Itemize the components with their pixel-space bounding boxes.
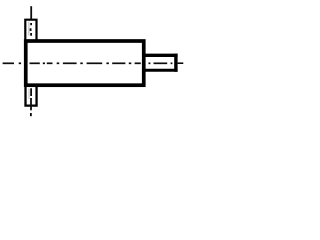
- right journal bottom edge: [144, 69, 178, 72]
- vertical centerline dot 2: [30, 28, 32, 31]
- horizontal centerline dot e: [106, 62, 109, 64]
- horizontal centerline dot h (inside journal): [171, 62, 173, 64]
- pin boss above body outline: [25, 20, 36, 42]
- vertical centerline end dot: [30, 113, 32, 116]
- vertical centerline lower dash 1: [30, 88, 32, 96]
- pin boss below body outline: [26, 85, 37, 106]
- right journal (small step cylinder) top edge: [144, 54, 178, 57]
- horizontal centerline dash f: [112, 62, 125, 64]
- horizontal centerline dash d: [63, 62, 77, 64]
- horizontal centerline dot c: [57, 62, 60, 64]
- horizontal centerline dot g (inside journal): [149, 62, 151, 64]
- horizontal centerline dash a: [3, 62, 14, 64]
- horizontal centerline dot d: [80, 62, 83, 64]
- horizontal centerline dash h (inside journal): [154, 62, 168, 64]
- horizontal centerline dash b: [30, 62, 40, 64]
- faint construction smudge line upper (scan artifact): [28, 22, 30, 36]
- horizontal centerline dash c: [47, 62, 53, 64]
- vertical centerline dot 1: [30, 23, 32, 25]
- faint construction smudge line lower (scan artifact): [28, 89, 30, 100]
- vertical centerline lower dash 2: [30, 98, 32, 110]
- vertical centerline dot 3: [30, 33, 32, 36]
- horizontal centerline dot b: [43, 62, 45, 64]
- horizontal centerline dot f: [129, 62, 132, 64]
- horizontal centerline dash g: [135, 62, 141, 64]
- horizontal centerline dash e: [87, 62, 103, 64]
- horizontal centerline dot a: [19, 62, 21, 64]
- vertical centerline top dash: [30, 6, 32, 19]
- main shaft body outline: [26, 41, 144, 85]
- horizontal centerline right tail dash: [178, 62, 184, 64]
- right journal right edge: [174, 54, 177, 72]
